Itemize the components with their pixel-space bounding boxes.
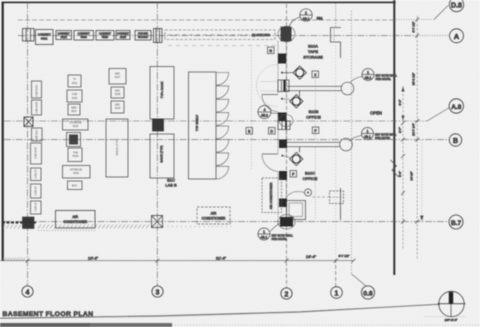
cabinet box L2 <box>32 100 42 115</box>
AC wall unit box <box>278 80 289 92</box>
box 2b <box>67 90 82 102</box>
grid line 3 <box>156 2 158 286</box>
keynote square B10C <box>290 171 297 178</box>
sparse hatch dots right of grid3 <box>163 226 232 228</box>
cabinet box L7 <box>31 201 42 214</box>
grid bubble B.7 <box>449 215 463 229</box>
bottom scan band <box>0 323 172 327</box>
interior dim dotted line left of corridor wall <box>251 45 253 170</box>
B.7 grid2 column block <box>280 217 293 227</box>
AC unit vertical box <box>262 178 282 213</box>
cabinet 0022 box <box>56 31 72 40</box>
break mark on right wall <box>391 160 399 177</box>
door B10C swing <box>262 154 278 172</box>
rack column 4 upper <box>150 67 174 120</box>
grid bubble A <box>450 29 464 43</box>
dim arrow up at wall A <box>401 87 404 92</box>
wall notch at grid1 top <box>331 28 342 43</box>
box 3c <box>111 101 124 113</box>
left cabinet tiny labels <box>34 85 39 212</box>
callout circle keynote wall B <box>349 128 374 142</box>
box 3b <box>111 87 124 98</box>
AC throw chord upper <box>261 81 278 83</box>
wall stud block 5 <box>279 199 287 208</box>
keynote square G <box>268 47 275 54</box>
phone board box <box>135 31 151 41</box>
A.8 column marker <box>24 117 33 127</box>
B.7 column block <box>23 217 35 229</box>
callout circle 1/AB.1 top <box>289 9 313 28</box>
dashed line closet to notch <box>312 196 329 198</box>
storage 0034 box <box>63 119 89 130</box>
right dim line outer <box>416 16 418 260</box>
cabinet 0026 box <box>116 31 130 40</box>
title underline <box>0 304 440 318</box>
grid2 top column block <box>281 27 291 41</box>
tall rack 3 <box>106 119 128 177</box>
partition wall A (y 88) <box>287 86 342 90</box>
grid bubble D.8 <box>449 0 463 12</box>
box 2e <box>67 133 81 147</box>
keynote square 2 <box>312 71 319 78</box>
keynote diamond B10C <box>290 152 303 165</box>
callout circle 4/AB.2 left of wall <box>258 106 278 119</box>
cabinet 0021 box <box>36 30 54 45</box>
door B10B swing <box>262 95 278 113</box>
grid line 0.8 <box>351 11 353 274</box>
B.7 column ellipse <box>278 215 295 229</box>
keynote dot leader to diamond 1 <box>281 72 283 74</box>
wall A end cap circle <box>341 82 354 95</box>
right dim line inner <box>402 86 404 250</box>
wall stud block 4 <box>279 171 287 180</box>
grid3 B.7 column marker <box>152 216 163 228</box>
electrical panel box <box>278 121 290 130</box>
AC throw semicircle <box>257 65 278 107</box>
cabinet 0025 box <box>96 31 114 41</box>
wall B end cap circle <box>340 138 353 151</box>
door B10C leaf <box>262 153 278 155</box>
grid 0.8 leader <box>352 274 367 286</box>
wall notch lower <box>330 191 344 204</box>
office right wall upper segment <box>340 42 342 58</box>
room label B10B office <box>306 109 321 120</box>
bottom dimension line <box>0 260 354 262</box>
cabinet box L5 <box>31 168 42 181</box>
grid line D.8 <box>18 6 448 21</box>
room label B10C office <box>303 171 318 182</box>
box 2a <box>68 75 81 87</box>
dim dotted drop to B.7 <box>421 140 423 218</box>
dim arrow down at A.8 <box>401 116 404 121</box>
cabinet 0024 box <box>74 31 94 41</box>
door centerline dotted <box>314 78 316 140</box>
cabinet box L1 <box>32 81 42 98</box>
rack column 4 lower <box>150 134 174 178</box>
drain circle with leader <box>305 189 312 196</box>
callout circle keynote wall A <box>350 69 374 84</box>
cabinet box L3 <box>32 128 43 141</box>
callout circle bottom 1/AB.1 <box>258 223 281 241</box>
box 3a <box>109 69 126 85</box>
grid bubble 3 <box>152 286 163 297</box>
storage 0035 box <box>63 166 91 179</box>
grid2 column ellipse overlay <box>278 26 295 42</box>
north arrow solid bar <box>449 292 453 304</box>
tiny equipment marks under hatch <box>38 230 96 232</box>
top cabinet row: grid4 column marker <box>23 29 35 42</box>
grid line 4 <box>27 2 29 286</box>
room label B1C LAB B <box>165 178 177 188</box>
hatch left of dim line <box>1 258 25 262</box>
left cabinet column <box>23 81 43 229</box>
keynote square D left <box>246 128 253 135</box>
grid bubble 2 <box>281 288 292 299</box>
grid3 column <box>154 29 163 43</box>
grid line B <box>4 139 449 141</box>
ceiling-high storage dashed strip <box>165 30 275 40</box>
title dotted line <box>0 305 438 319</box>
grid line 2 <box>286 4 288 288</box>
closet rect <box>287 201 306 220</box>
door B10B leaf <box>262 94 278 96</box>
keynote diamond tape storage <box>282 66 306 79</box>
A.8 grid3 column block <box>153 119 164 131</box>
existing wall hatch under B.7 <box>2 225 149 229</box>
grid line B.7 <box>4 221 449 223</box>
box 2h <box>68 181 83 190</box>
partition wall B (y 144.5) <box>287 142 341 146</box>
sheet border left bar <box>2 2 4 261</box>
sheet border top line <box>2 2 396 4</box>
box 2c <box>68 104 80 115</box>
grid line A.8 <box>4 108 450 122</box>
keynote dot leader to diamond 2 <box>281 98 283 100</box>
panel ellipse overlay <box>279 115 293 127</box>
rack column 3 <box>106 69 128 178</box>
grid line A <box>18 35 449 37</box>
grid bubble B <box>449 134 461 146</box>
wall stud block 3 <box>279 140 287 149</box>
AC throw chord lower <box>261 90 278 92</box>
keynote dot leader to diamond 3 <box>281 155 283 157</box>
right main wall <box>393 0 395 275</box>
wall stud block 2 <box>278 113 286 122</box>
keynote square D <box>269 128 276 135</box>
rack column 2 <box>63 75 91 190</box>
grid bubble 0.8 <box>361 286 374 299</box>
AC box right (dashed) <box>197 207 230 224</box>
keynote square F <box>312 127 319 134</box>
box 2f <box>68 148 82 162</box>
room label B10A tape storage <box>303 44 323 60</box>
wall A stub <box>299 91 301 97</box>
grid line 1 top <box>335 3 337 27</box>
main corridor wall (vertical dotted faces) <box>278 41 286 217</box>
wall stud block 1 <box>278 54 286 64</box>
wall B stub <box>299 147 301 153</box>
grid line 1 bottom <box>335 42 337 259</box>
dim ticks right <box>401 18 419 224</box>
rack column 5 tall shelf <box>189 72 217 179</box>
office right wall lower segment <box>340 188 342 220</box>
grid bubble 4 <box>22 286 33 297</box>
strip inner dashes <box>168 34 248 36</box>
AC box left (solid) <box>56 211 96 229</box>
shelving arcs <box>216 73 229 180</box>
keynote diamond B10B <box>290 95 303 108</box>
north arrow <box>438 291 466 316</box>
grid bubble 1 <box>331 287 343 299</box>
grid bubble A.8 <box>449 99 463 113</box>
bottom scan speckle right <box>172 324 480 326</box>
column2 tiny labels <box>69 78 82 188</box>
dark wall dashes left of grid4 at B.7 <box>2 222 36 224</box>
cabinet box L4 <box>31 143 42 164</box>
dim ticks bottom <box>26 259 356 263</box>
cabinet box L6 <box>31 184 42 198</box>
